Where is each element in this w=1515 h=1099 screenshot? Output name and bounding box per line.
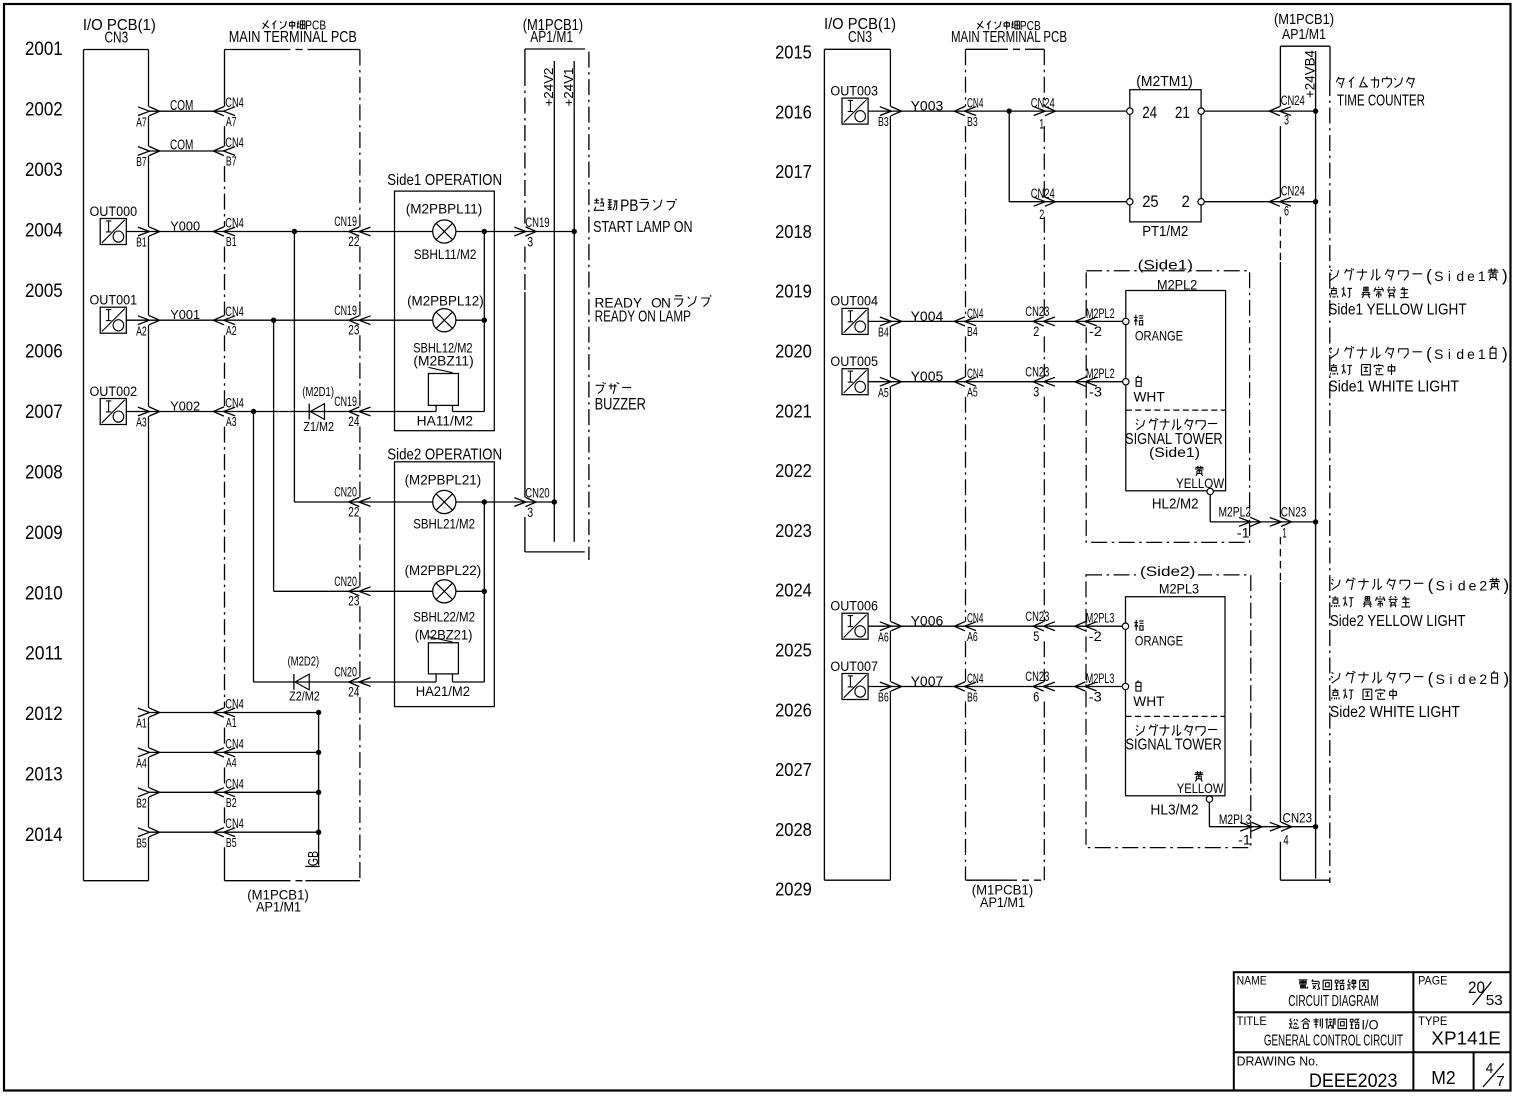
svg-text:21: 21: [1175, 103, 1190, 122]
svg-text:2: 2: [1479, 578, 1487, 594]
svg-text:CN19: CN19: [334, 213, 357, 229]
svg-text:B6: B6: [967, 689, 978, 704]
svg-text:A7: A7: [136, 114, 147, 129]
svg-text:CN24: CN24: [1031, 185, 1055, 201]
svg-text:2004: 2004: [25, 220, 63, 242]
svg-text:Y006: Y006: [911, 614, 944, 629]
svg-text:25: 25: [1142, 192, 1158, 211]
svg-text:YELLOW: YELLOW: [1177, 781, 1224, 796]
svg-text:2029: 2029: [775, 879, 812, 900]
svg-text:(: (: [1426, 266, 1432, 285]
svg-text:2007: 2007: [25, 401, 63, 423]
svg-text:i: i: [1448, 346, 1451, 362]
svg-text:Side2 WHITE LIGHT: Side2 WHITE LIGHT: [1330, 704, 1460, 721]
svg-text:CN4: CN4: [967, 610, 983, 626]
svg-text:2001: 2001: [25, 38, 63, 60]
svg-text:TITLE: TITLE: [1237, 1014, 1267, 1028]
svg-text:Y000: Y000: [170, 218, 200, 233]
svg-text:+24VB4: +24VB4: [1302, 50, 1317, 98]
svg-text:24: 24: [348, 413, 359, 429]
svg-text:CN23: CN23: [1025, 668, 1049, 684]
svg-text:2: 2: [1479, 671, 1487, 687]
svg-text:(: (: [1428, 669, 1434, 688]
svg-text:B7: B7: [136, 154, 147, 169]
svg-text:(M1PCB1): (M1PCB1): [1274, 12, 1334, 28]
svg-text:Z1/M2: Z1/M2: [303, 419, 334, 434]
svg-text:2002: 2002: [25, 99, 63, 121]
svg-text:OUT001: OUT001: [90, 292, 138, 308]
svg-text:CN20: CN20: [334, 484, 357, 500]
svg-text:2021: 2021: [775, 400, 812, 421]
svg-text:-2: -2: [1089, 323, 1102, 339]
svg-text:22: 22: [348, 233, 359, 249]
svg-text:1: 1: [1478, 346, 1486, 362]
svg-text:CN24: CN24: [1281, 92, 1305, 108]
svg-text:S: S: [1434, 268, 1443, 284]
svg-text:A3: A3: [226, 414, 237, 429]
svg-text:M2PL3: M2PL3: [1159, 580, 1199, 596]
svg-text:OUT004: OUT004: [830, 293, 878, 309]
svg-text:PB: PB: [620, 196, 638, 215]
svg-text:PAGE: PAGE: [1418, 974, 1447, 988]
svg-text:5: 5: [1033, 628, 1039, 644]
svg-text:CN23: CN23: [1283, 811, 1313, 826]
svg-text:Y005: Y005: [911, 369, 944, 384]
svg-text:M2PL3: M2PL3: [1219, 812, 1252, 827]
svg-text:i: i: [1449, 671, 1452, 687]
svg-text:CN23: CN23: [1025, 363, 1049, 379]
svg-text:S: S: [1436, 671, 1445, 687]
svg-text:Y007: Y007: [911, 674, 944, 689]
svg-text:CN20: CN20: [525, 484, 549, 500]
svg-text:ORANGE: ORANGE: [1135, 634, 1183, 649]
svg-text:-1: -1: [1238, 832, 1251, 847]
svg-text:A5: A5: [878, 385, 889, 400]
svg-text:AP1/M1: AP1/M1: [530, 29, 573, 46]
svg-text:OUT005: OUT005: [830, 353, 878, 369]
svg-text:M2PL3: M2PL3: [1086, 670, 1115, 686]
svg-text:2010: 2010: [25, 582, 63, 604]
svg-text:B1: B1: [226, 234, 237, 249]
svg-text:B4: B4: [967, 324, 978, 339]
svg-text:23: 23: [348, 322, 359, 338]
svg-text:2024: 2024: [775, 580, 812, 601]
svg-text:3: 3: [1033, 384, 1039, 400]
svg-text:ORANGE: ORANGE: [1135, 329, 1183, 344]
svg-text:6: 6: [1033, 688, 1039, 704]
svg-text:): ): [1502, 344, 1508, 363]
svg-text:2013: 2013: [25, 764, 63, 786]
svg-text:MAIN TERMINAL PCB: MAIN TERMINAL PCB: [951, 29, 1067, 46]
svg-text:2: 2: [1039, 206, 1044, 222]
svg-text:d: d: [1456, 268, 1464, 284]
svg-text:2022: 2022: [775, 460, 812, 481]
svg-text:22: 22: [348, 503, 359, 519]
svg-text:TYPE: TYPE: [1418, 1014, 1447, 1028]
svg-text:2005: 2005: [25, 280, 63, 302]
svg-text:3: 3: [1284, 112, 1289, 128]
svg-text:23: 23: [348, 593, 359, 609]
svg-text:B5: B5: [226, 835, 237, 850]
svg-text:CN4: CN4: [225, 696, 244, 712]
svg-text:(M2D1): (M2D1): [302, 384, 334, 399]
svg-text:Side1 YELLOW LIGHT: Side1 YELLOW LIGHT: [1328, 301, 1466, 318]
svg-text:A6: A6: [967, 629, 978, 644]
svg-text:A4: A4: [226, 755, 237, 770]
svg-text:CN4: CN4: [225, 215, 244, 231]
svg-text:B2: B2: [226, 795, 237, 810]
svg-text:7: 7: [1496, 1074, 1505, 1090]
svg-text:2026: 2026: [775, 699, 812, 720]
svg-text:HA21/M2: HA21/M2: [416, 684, 470, 699]
svg-text:COM: COM: [170, 138, 193, 154]
svg-text:M2: M2: [1431, 1067, 1455, 1088]
svg-text:6: 6: [1284, 202, 1289, 218]
svg-text:+24V2: +24V2: [541, 68, 556, 107]
svg-text:CN4: CN4: [225, 735, 244, 751]
svg-text:e: e: [1467, 346, 1475, 362]
svg-text:OUT000: OUT000: [90, 203, 138, 219]
svg-text:(: (: [1428, 576, 1434, 595]
svg-text:CN19: CN19: [525, 214, 549, 230]
svg-text:(: (: [1426, 344, 1432, 363]
svg-text:): ): [1504, 669, 1510, 688]
svg-text:24: 24: [1142, 103, 1157, 122]
svg-text:CN4: CN4: [225, 775, 244, 791]
svg-text:OUT002: OUT002: [90, 383, 138, 399]
svg-text:2006: 2006: [25, 340, 63, 362]
svg-text:WHT: WHT: [1134, 390, 1166, 405]
svg-text:A5: A5: [967, 385, 978, 400]
svg-text:A7: A7: [226, 114, 237, 129]
svg-text:CN24: CN24: [1281, 183, 1305, 199]
svg-text:CN4: CN4: [967, 95, 983, 111]
svg-text:d: d: [1456, 346, 1464, 362]
svg-text:2028: 2028: [775, 819, 812, 840]
svg-text:(M2TM1): (M2TM1): [1136, 74, 1192, 90]
svg-text:SBHL21/M2: SBHL21/M2: [413, 516, 475, 531]
svg-text:PT1/M2: PT1/M2: [1142, 224, 1188, 240]
svg-text:DRAWING No.: DRAWING No.: [1237, 1053, 1319, 1068]
svg-text:-1: -1: [1237, 526, 1250, 541]
svg-text:SIGNAL TOWER: SIGNAL TOWER: [1126, 737, 1222, 754]
svg-text:53: 53: [1486, 993, 1503, 1009]
svg-text:CN3: CN3: [105, 30, 129, 47]
svg-text:GENERAL CONTROL CIRCUIT: GENERAL CONTROL CIRCUIT: [1264, 1033, 1403, 1050]
svg-text:CN23: CN23: [1281, 504, 1307, 519]
svg-text:CN24: CN24: [1031, 95, 1055, 111]
svg-text:4: 4: [1486, 1061, 1494, 1077]
svg-text:S: S: [1436, 578, 1445, 594]
svg-text:B6: B6: [878, 690, 889, 705]
svg-text:CN4: CN4: [967, 305, 983, 321]
svg-text:B4: B4: [878, 325, 889, 340]
svg-text:B5: B5: [136, 835, 147, 850]
svg-text:A2: A2: [136, 323, 147, 338]
svg-text:CN4: CN4: [225, 815, 244, 831]
svg-text:START LAMP ON: START LAMP ON: [593, 219, 693, 236]
svg-text:AP1/M1: AP1/M1: [256, 899, 301, 914]
svg-text:CN19: CN19: [334, 302, 357, 318]
svg-text:d: d: [1458, 578, 1466, 594]
svg-text:2018: 2018: [775, 221, 812, 242]
svg-text:HA11/M2: HA11/M2: [417, 414, 473, 429]
svg-text:(Side1): (Side1): [1149, 444, 1200, 460]
svg-text:B3: B3: [967, 114, 978, 129]
svg-text:WHT: WHT: [1133, 694, 1165, 709]
svg-text:-2: -2: [1089, 628, 1102, 644]
svg-text:-3: -3: [1089, 384, 1102, 400]
svg-text:B2: B2: [136, 795, 147, 810]
svg-text:2011: 2011: [25, 643, 63, 665]
svg-text:(Side1): (Side1): [1138, 257, 1193, 272]
svg-text:CN4: CN4: [967, 365, 983, 381]
svg-text:i: i: [1449, 578, 1452, 594]
svg-text:READY ON LAMP: READY ON LAMP: [595, 309, 691, 326]
svg-text:M2PL2: M2PL2: [1086, 305, 1115, 321]
svg-text:(M2PBPL12): (M2PBPL12): [407, 293, 484, 308]
svg-text:HL2/M2: HL2/M2: [1152, 497, 1199, 513]
svg-text:M2PL2: M2PL2: [1219, 504, 1252, 519]
svg-text:AP1/M1: AP1/M1: [980, 895, 1025, 910]
svg-text:(M2PBPL22): (M2PBPL22): [405, 563, 482, 578]
svg-text:4: 4: [1283, 832, 1289, 847]
svg-text:3: 3: [527, 504, 533, 520]
svg-text:e: e: [1469, 578, 1477, 594]
svg-text:A4: A4: [136, 756, 147, 771]
svg-text:CN20: CN20: [334, 573, 357, 589]
svg-text:I/O: I/O: [1362, 1017, 1379, 1033]
svg-text:2012: 2012: [25, 703, 63, 725]
svg-text:Side2 OPERATION: Side2 OPERATION: [387, 446, 502, 463]
svg-text:S: S: [1434, 346, 1443, 362]
svg-text:-3: -3: [1089, 688, 1102, 704]
svg-text:OUT003: OUT003: [830, 82, 878, 98]
svg-text:COM: COM: [170, 98, 193, 114]
svg-text:A6: A6: [878, 629, 889, 644]
svg-text:e: e: [1469, 671, 1477, 687]
svg-text:CN19: CN19: [334, 393, 357, 409]
svg-text:): ): [1504, 576, 1510, 595]
svg-text:2020: 2020: [775, 341, 812, 362]
svg-text:2025: 2025: [775, 640, 812, 661]
svg-text:Side2 YELLOW LIGHT: Side2 YELLOW LIGHT: [1330, 613, 1466, 630]
svg-text:A1: A1: [136, 716, 147, 731]
svg-text:Side1 OPERATION: Side1 OPERATION: [387, 172, 502, 189]
svg-text:B7: B7: [226, 154, 237, 169]
svg-text:2008: 2008: [25, 461, 63, 483]
svg-text:e: e: [1467, 268, 1475, 284]
svg-text:2: 2: [1033, 323, 1039, 339]
svg-text:2023: 2023: [775, 520, 812, 541]
svg-text:d: d: [1458, 671, 1466, 687]
svg-text:SBHL11/M2: SBHL11/M2: [414, 247, 477, 262]
svg-text:Side1 WHITE LIGHT: Side1 WHITE LIGHT: [1328, 378, 1459, 395]
svg-text:A1: A1: [226, 715, 237, 730]
svg-text:2017: 2017: [775, 161, 812, 182]
svg-text:i: i: [1448, 268, 1451, 284]
svg-text:2: 2: [1182, 192, 1190, 211]
svg-text:TIME COUNTER: TIME COUNTER: [1337, 93, 1425, 110]
svg-text:1: 1: [1282, 526, 1286, 541]
svg-text:(Side2): (Side2): [1140, 564, 1195, 579]
svg-text:2019: 2019: [775, 281, 812, 302]
svg-text:CN3: CN3: [848, 29, 872, 46]
svg-text:CN23: CN23: [1025, 608, 1049, 624]
svg-text:B1: B1: [136, 235, 147, 250]
svg-text:2016: 2016: [775, 101, 812, 122]
svg-text:1: 1: [1039, 115, 1044, 131]
svg-text:1: 1: [1478, 268, 1486, 284]
svg-text:CN23: CN23: [1025, 303, 1049, 319]
svg-text:(M2PBPL21): (M2PBPL21): [405, 473, 482, 488]
svg-text:GB: GB: [306, 851, 322, 866]
svg-text:CN4: CN4: [967, 670, 983, 686]
svg-text:Y002: Y002: [170, 398, 200, 413]
svg-text:Y004: Y004: [911, 309, 944, 324]
svg-text:HL3/M2: HL3/M2: [1150, 802, 1198, 818]
svg-text:CIRCUIT DIAGRAM: CIRCUIT DIAGRAM: [1288, 993, 1378, 1010]
svg-text:OUT006: OUT006: [830, 598, 878, 614]
svg-text:CN4: CN4: [225, 303, 244, 319]
svg-text:24: 24: [348, 683, 359, 699]
svg-text:2027: 2027: [775, 759, 812, 780]
svg-text:(M2PBPL11): (M2PBPL11): [406, 202, 483, 217]
svg-text:CN4: CN4: [225, 134, 244, 150]
svg-text:AP1/M1: AP1/M1: [1282, 27, 1326, 43]
svg-text:OUT007: OUT007: [830, 658, 878, 674]
svg-text:+24V1: +24V1: [561, 68, 576, 107]
svg-text:3: 3: [527, 233, 533, 249]
svg-text:Y003: Y003: [911, 99, 944, 114]
svg-text:YELLOW: YELLOW: [1176, 476, 1224, 491]
svg-text:2014: 2014: [25, 824, 63, 846]
svg-text:2003: 2003: [25, 159, 63, 181]
svg-text:B3: B3: [878, 114, 889, 129]
svg-text:MAIN TERMINAL PCB: MAIN TERMINAL PCB: [229, 29, 357, 46]
svg-text:): ): [1502, 266, 1508, 285]
svg-text:A2: A2: [226, 323, 237, 338]
svg-text:2009: 2009: [25, 522, 63, 544]
svg-text:M2PL2: M2PL2: [1086, 365, 1115, 381]
svg-text:M2PL3: M2PL3: [1086, 610, 1115, 626]
svg-text:2015: 2015: [775, 42, 812, 63]
svg-text:Y001: Y001: [170, 307, 200, 322]
svg-text:CN20: CN20: [334, 664, 357, 680]
svg-text:CN4: CN4: [225, 94, 244, 110]
svg-text:CN4: CN4: [225, 395, 244, 411]
svg-text:BUZZER: BUZZER: [595, 396, 646, 414]
svg-text:Z2/M2: Z2/M2: [289, 689, 320, 704]
svg-text:(M2D2): (M2D2): [288, 653, 320, 668]
svg-text:DEEE2023: DEEE2023: [1309, 1070, 1397, 1092]
svg-text:XP141E: XP141E: [1431, 1028, 1501, 1049]
svg-text:A3: A3: [136, 415, 147, 430]
svg-text:SBHL22/M2: SBHL22/M2: [413, 610, 475, 625]
svg-text:NAME: NAME: [1237, 974, 1267, 988]
svg-text:(M2BZ11): (M2BZ11): [413, 353, 473, 368]
